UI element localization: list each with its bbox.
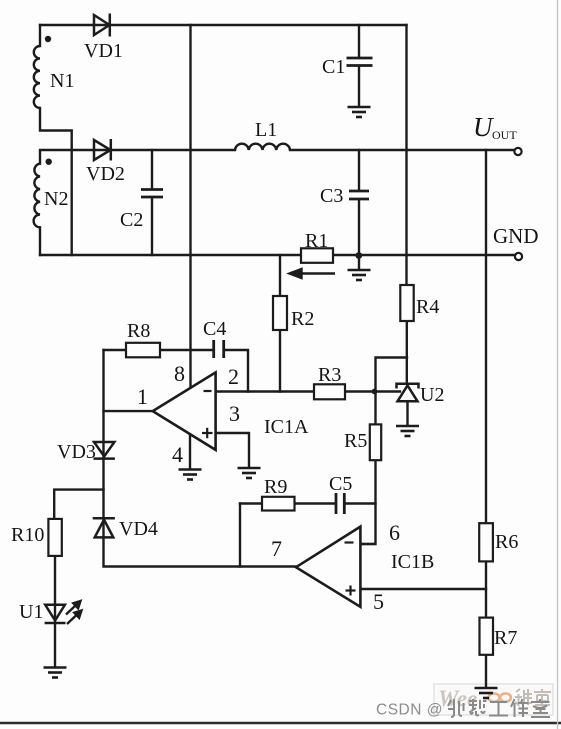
svg-text:R3: R3 [318, 364, 341, 386]
svg-text:VD3: VD3 [57, 441, 96, 463]
svg-text:N1: N1 [50, 70, 74, 92]
svg-text:R4: R4 [416, 296, 439, 318]
svg-text:R6: R6 [495, 531, 518, 553]
svg-text:R1: R1 [305, 230, 328, 252]
svg-text:5: 5 [373, 589, 384, 614]
svg-text:C2: C2 [120, 209, 143, 231]
svg-text:CSDN @: CSDN @ [376, 702, 443, 719]
svg-text:C5: C5 [329, 473, 352, 495]
svg-text:R9: R9 [264, 476, 287, 498]
svg-text:C1: C1 [322, 56, 345, 78]
svg-text:OUT: OUT [492, 128, 517, 142]
svg-text:1: 1 [137, 384, 148, 409]
svg-text:U2: U2 [420, 384, 444, 406]
svg-text:3: 3 [229, 401, 240, 426]
svg-text:Wee: Wee [438, 686, 477, 711]
svg-text:C4: C4 [203, 318, 226, 340]
svg-text:L1: L1 [255, 119, 277, 141]
svg-text:C3: C3 [320, 185, 343, 207]
svg-text:GND: GND [493, 224, 539, 248]
svg-text:VD4: VD4 [119, 518, 158, 540]
svg-text:R8: R8 [127, 320, 150, 342]
svg-text:4: 4 [172, 442, 183, 467]
svg-text:7: 7 [271, 536, 282, 561]
svg-text:VD1: VD1 [84, 40, 123, 62]
svg-text:N2: N2 [44, 188, 68, 210]
svg-text:8: 8 [174, 361, 185, 386]
svg-text:2: 2 [228, 364, 239, 389]
svg-text:R7: R7 [494, 627, 517, 649]
svg-text:VD2: VD2 [86, 163, 125, 185]
svg-text:U: U [473, 112, 494, 142]
svg-text:R2: R2 [291, 308, 314, 330]
svg-text:R5: R5 [344, 430, 367, 452]
svg-text:R10: R10 [11, 524, 44, 546]
svg-text:6: 6 [389, 520, 400, 545]
svg-text:IC1B: IC1B [391, 551, 434, 573]
svg-text:U1: U1 [19, 601, 43, 623]
svg-text:IC1A: IC1A [264, 416, 309, 438]
